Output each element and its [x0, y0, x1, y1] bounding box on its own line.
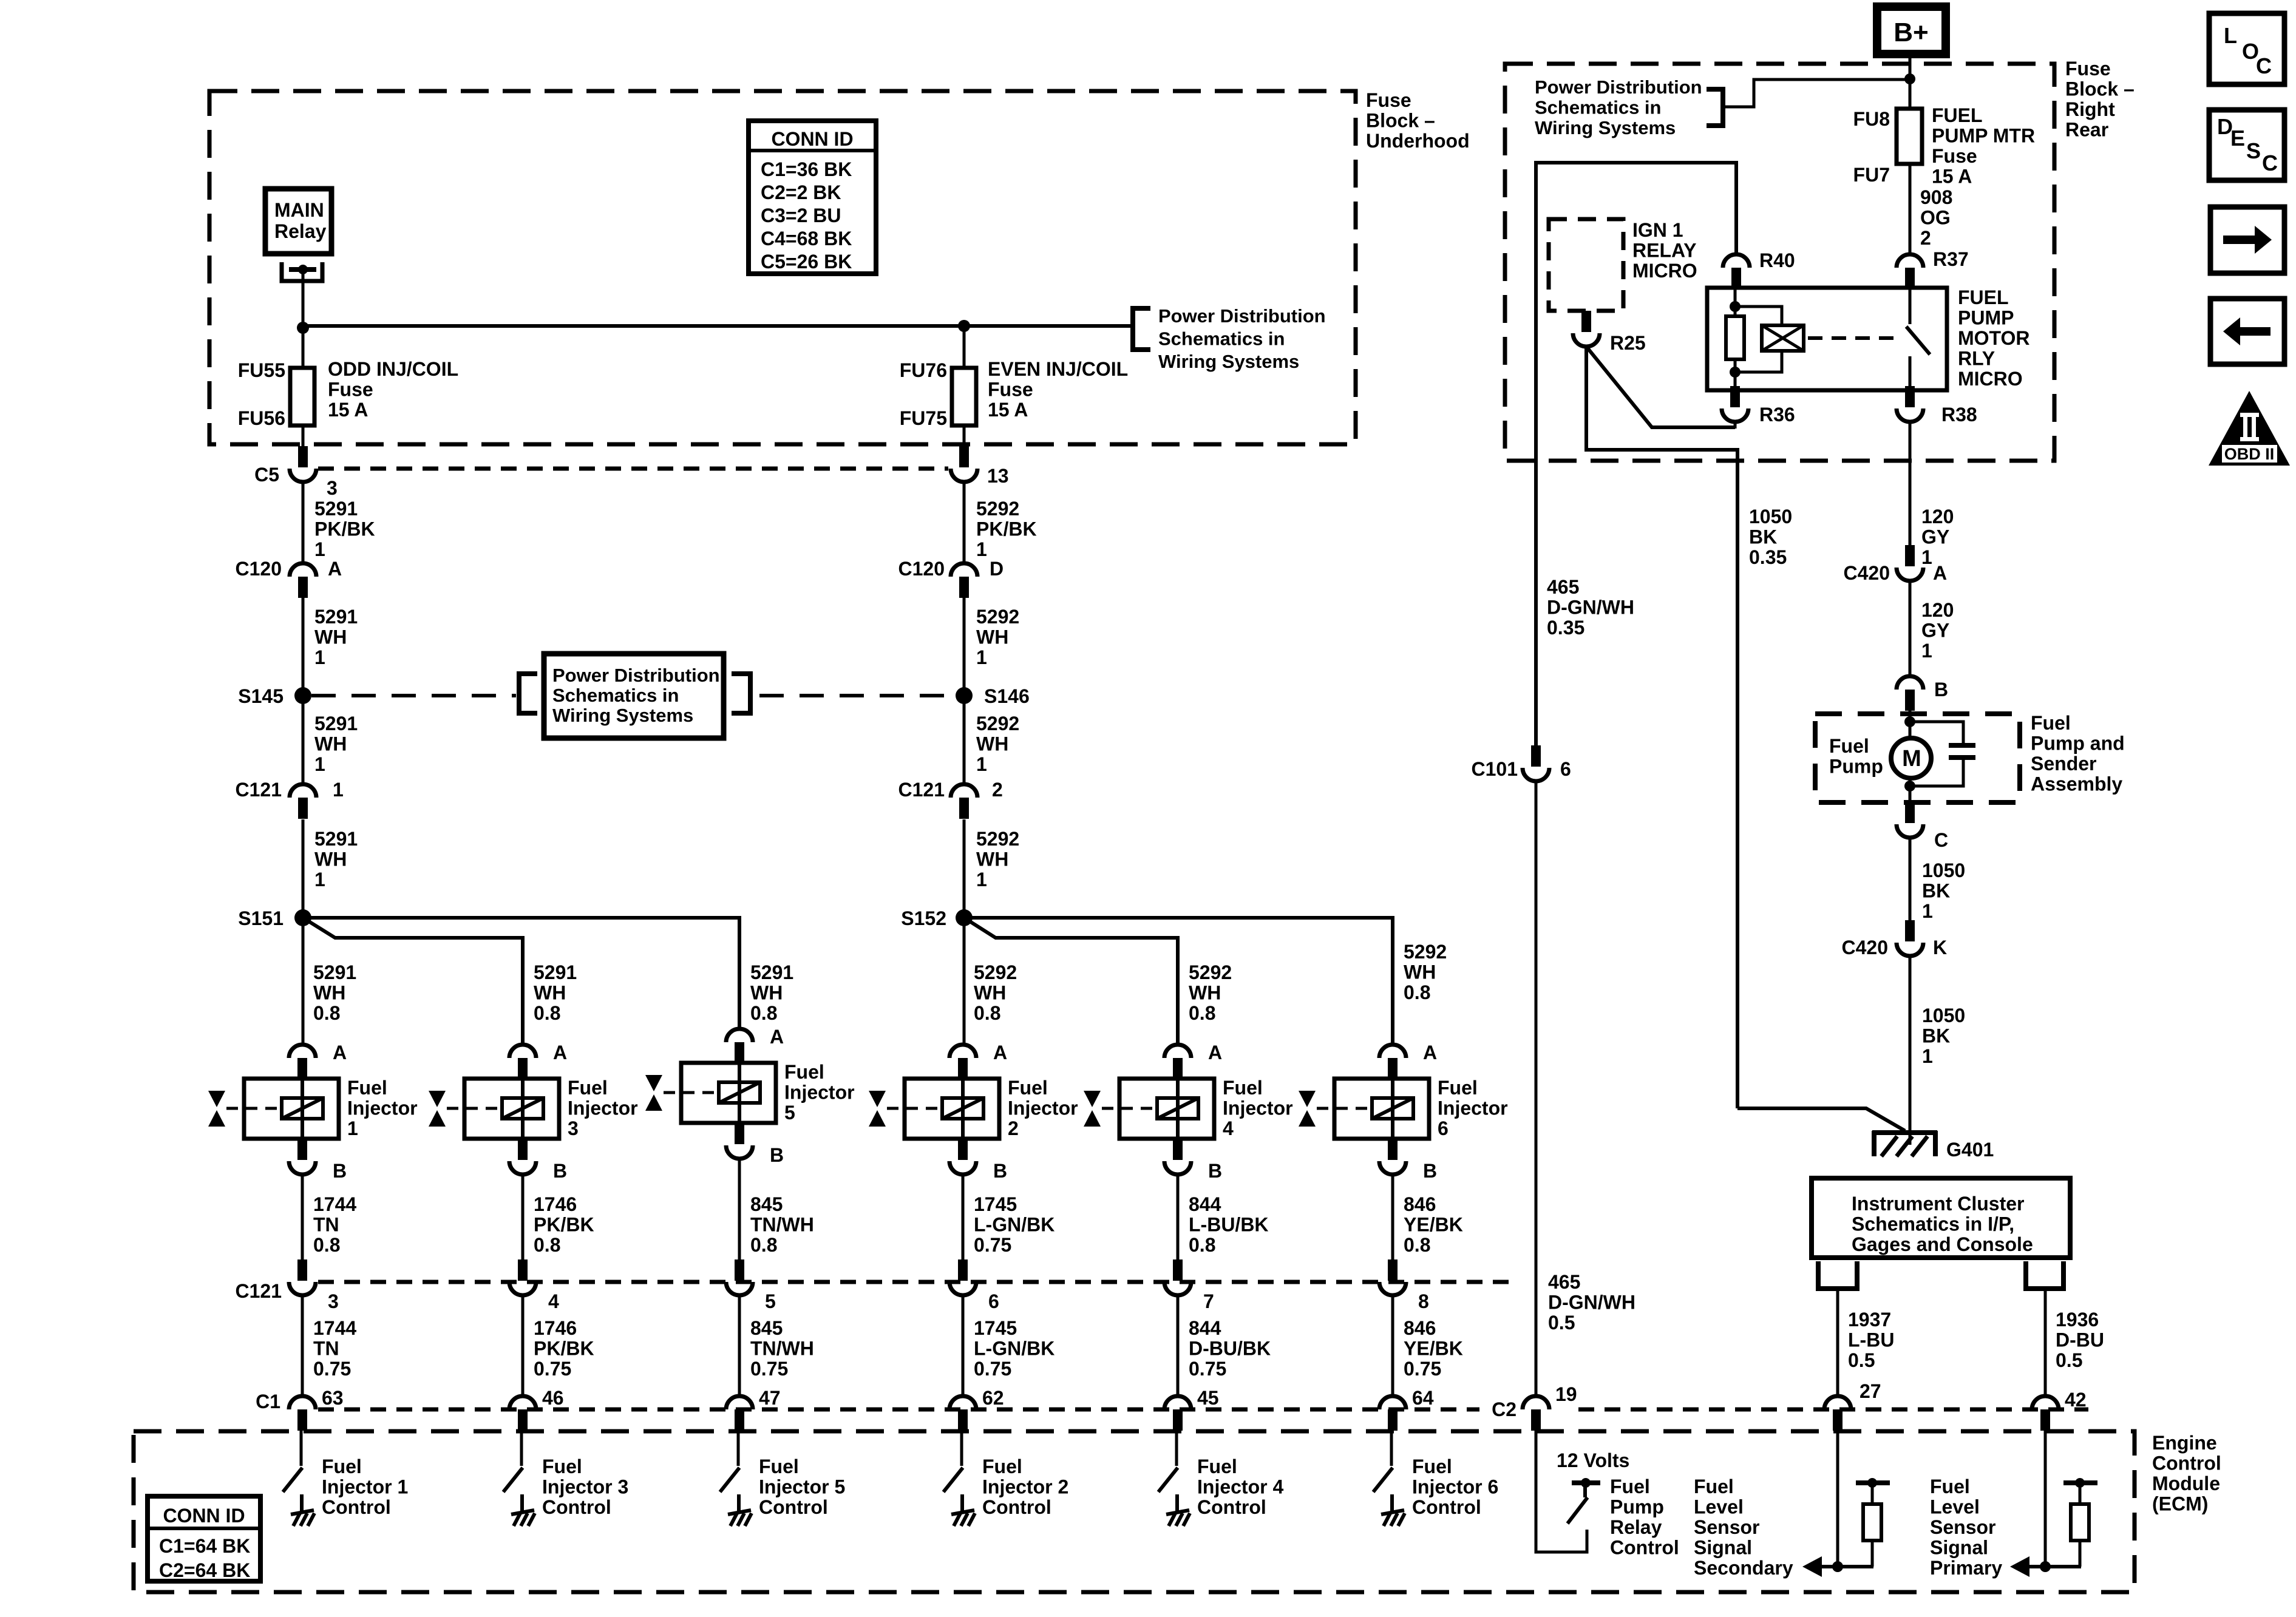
svg-text:844: 844	[1189, 1317, 1221, 1339]
svg-text:GY: GY	[1921, 526, 1949, 548]
svg-text:FU7: FU7	[1853, 164, 1890, 186]
svg-text:Rear: Rear	[2065, 119, 2108, 141]
connector B of fuel injector 1	[289, 1161, 316, 1175]
svg-text:B: B	[1423, 1160, 1437, 1182]
svg-text:Level: Level	[1694, 1496, 1744, 1518]
connector R25	[1573, 311, 1600, 347]
svg-text:MICRO: MICRO	[1632, 260, 1697, 282]
svg-text:Fuel: Fuel	[982, 1456, 1022, 1477]
svg-text:Fuel: Fuel	[1438, 1077, 1478, 1099]
svg-text:45: 45	[1197, 1387, 1219, 1409]
svg-text:Fuel: Fuel	[1008, 1077, 1048, 1099]
connector C121 pin 5	[726, 1259, 753, 1295]
power distribution reference box	[544, 654, 724, 738]
svg-text:D-BU: D-BU	[2056, 1329, 2104, 1351]
connector C5 pin 3	[290, 446, 316, 482]
wire C120-A to S145	[302, 598, 305, 696]
svg-text:5292: 5292	[974, 961, 1017, 983]
svg-text:L-GN/BK: L-GN/BK	[974, 1214, 1055, 1236]
relay actuation dashed link	[1808, 336, 1900, 340]
OBD II icon	[2209, 391, 2290, 466]
svg-text:Injector 1: Injector 1	[322, 1476, 408, 1498]
svg-text:15 A: 15 A	[1932, 166, 1972, 188]
svg-text:Level: Level	[1930, 1496, 1980, 1518]
engine control module dashed box	[134, 1431, 2135, 1592]
svg-text:M: M	[1902, 746, 1921, 771]
svg-text:0.35: 0.35	[1749, 546, 1787, 568]
svg-text:Fuse: Fuse	[328, 379, 373, 401]
connector C1 pin 47	[726, 1396, 753, 1431]
svg-text:C420: C420	[1842, 937, 1889, 958]
svg-text:Fuel: Fuel	[347, 1077, 387, 1099]
svg-text:FUEL: FUEL	[1958, 286, 2009, 308]
svg-text:A: A	[770, 1026, 784, 1048]
svg-text:5291: 5291	[314, 498, 358, 520]
wire MAIN relay to bus junction	[302, 272, 305, 328]
svg-text:Control: Control	[1610, 1537, 1679, 1559]
ECM driver switch (injector 5)	[720, 1468, 739, 1492]
ECM driver switch (injector 2)	[943, 1468, 963, 1492]
svg-text:Injector: Injector	[1223, 1097, 1293, 1119]
ECM fuel level secondary node	[1832, 1561, 1843, 1572]
dotted connector line C1/C2 row (right)	[1578, 1408, 2088, 1412]
svg-text:1744: 1744	[313, 1193, 356, 1215]
connector C420 pin K	[1897, 920, 1923, 956]
wire pin 19 into ECM	[1536, 1431, 1587, 1552]
svg-text:C1: C1	[256, 1391, 280, 1412]
dashed reference line to S146	[759, 694, 957, 697]
svg-text:Fuse: Fuse	[2065, 58, 2111, 80]
svg-text:62: 62	[982, 1387, 1004, 1409]
wire FU7 to R37	[1909, 164, 1912, 254]
svg-text:Injector: Injector	[1008, 1097, 1078, 1119]
svg-text:C: C	[1934, 829, 1948, 851]
injector 4 dashed actuator link	[1102, 1107, 1156, 1110]
svg-text:2: 2	[992, 779, 1003, 801]
connector C120 pin D	[951, 563, 977, 598]
svg-text:Fuel: Fuel	[1412, 1456, 1452, 1477]
connector C1 pin 46	[509, 1396, 536, 1431]
ECM driver switch (injector 1)	[283, 1468, 302, 1492]
svg-text:BK: BK	[1922, 880, 1950, 902]
svg-text:6: 6	[988, 1290, 999, 1312]
relay switch blade	[1906, 327, 1930, 354]
injector 6 dashed actuator link	[1317, 1107, 1371, 1110]
svg-text:2: 2	[1920, 227, 1931, 249]
svg-text:3: 3	[328, 1290, 339, 1312]
wire pin 42 into ECM	[2044, 1431, 2047, 1564]
injector 2 nozzle valve symbol	[869, 1091, 886, 1127]
ground feed from relay run	[1737, 1108, 1905, 1131]
svg-text:Power Distribution: Power Distribution	[1535, 76, 1702, 98]
ECM internal ground (injector 2)	[951, 1510, 975, 1526]
svg-text:Injector: Injector	[568, 1097, 638, 1119]
svg-text:5291: 5291	[314, 713, 358, 734]
horizontal bus wire	[303, 324, 1132, 328]
svg-text:Underhood: Underhood	[1366, 130, 1470, 152]
injector 1 nozzle valve symbol	[208, 1091, 225, 1127]
svg-text:Fuel: Fuel	[1930, 1476, 1970, 1497]
wire C120-D to S146	[963, 598, 966, 696]
svg-text:Power Distribution: Power Distribution	[1158, 305, 1326, 327]
svg-text:Schematics in: Schematics in	[552, 685, 679, 706]
svg-text:C5=26 BK: C5=26 BK	[761, 251, 852, 273]
svg-text:465: 465	[1548, 1271, 1580, 1293]
wire injector 4 to C121	[1177, 1175, 1180, 1261]
svg-text:Relay: Relay	[1610, 1516, 1662, 1538]
fuel pump motor M	[1891, 738, 1931, 778]
ECM switch contact (injector 5)	[737, 1494, 741, 1511]
svg-text:120: 120	[1921, 599, 1954, 621]
svg-text:0.8: 0.8	[750, 1002, 777, 1024]
svg-text:1: 1	[976, 538, 987, 560]
svg-text:C2=64 BK: C2=64 BK	[159, 1559, 250, 1581]
fuse FU76/FU75 EVEN INJ/COIL	[952, 368, 976, 425]
ground G401 symbol	[1872, 1131, 1937, 1156]
svg-text:(ECM): (ECM)	[2152, 1493, 2208, 1515]
dashed reference line S145	[311, 694, 516, 697]
connector B of fuel injector 5	[726, 1145, 753, 1159]
IGN 1 relay dashed box	[1549, 219, 1623, 311]
svg-text:C5: C5	[254, 464, 279, 486]
svg-text:0.75: 0.75	[974, 1234, 1011, 1256]
svg-text:1: 1	[347, 1117, 358, 1139]
connector A of fuel injector 6	[1379, 1045, 1406, 1079]
connector C121 pin 4	[509, 1259, 536, 1295]
svg-text:PK/BK: PK/BK	[314, 518, 375, 540]
wire B+ down	[1909, 54, 1912, 109]
svg-text:Instrument Cluster: Instrument Cluster	[1852, 1193, 2024, 1215]
wire C to C420-K	[1909, 838, 1912, 921]
svg-text:Fuel: Fuel	[1610, 1476, 1650, 1497]
svg-text:Control: Control	[1412, 1496, 1481, 1518]
connector B of fuel injector 4	[1164, 1161, 1191, 1175]
svg-text:0.75: 0.75	[313, 1358, 351, 1380]
forward arrow icon	[2210, 207, 2284, 273]
svg-text:Fuel: Fuel	[1829, 735, 1869, 757]
connector R37	[1897, 254, 1923, 289]
right bracket (power distribution right)	[1707, 89, 1723, 126]
svg-text:0.8: 0.8	[750, 1234, 777, 1256]
instrument cluster terminal right	[2026, 1261, 2063, 1289]
svg-text:WH: WH	[313, 982, 345, 1004]
svg-text:Control: Control	[982, 1496, 1051, 1518]
wire R38 to C420-A	[1909, 422, 1912, 545]
fuel injector 6 solenoid box	[1334, 1079, 1429, 1139]
svg-text:13: 13	[987, 465, 1009, 487]
svg-text:WH: WH	[314, 626, 347, 648]
svg-text:Schematics in I/P,: Schematics in I/P,	[1852, 1213, 2014, 1235]
svg-text:D-BU/BK: D-BU/BK	[1189, 1338, 1271, 1360]
svg-text:0.8: 0.8	[534, 1002, 560, 1024]
svg-text:A: A	[1208, 1042, 1222, 1063]
svg-text:D-GN/WH: D-GN/WH	[1548, 1292, 1635, 1314]
wire S152 to injector 6 branch	[964, 918, 1393, 1043]
wire S152 to injector 4 branch	[964, 918, 1178, 1043]
svg-text:46: 46	[542, 1387, 564, 1409]
connector C121 pin 7	[1164, 1259, 1191, 1295]
connector C fuel pump	[1897, 802, 1923, 838]
svg-text:6: 6	[1560, 758, 1571, 780]
svg-text:L-BU/BK: L-BU/BK	[1189, 1214, 1269, 1236]
svg-text:Injector: Injector	[1438, 1097, 1508, 1119]
connector C121 pin 8	[1379, 1259, 1406, 1295]
svg-text:1: 1	[314, 646, 325, 668]
dotted connector line C1/C2 row (left)	[318, 1408, 1479, 1412]
svg-text:CONN ID: CONN ID	[771, 128, 853, 150]
svg-text:5291: 5291	[314, 828, 358, 850]
relay coil top junction	[1730, 301, 1741, 312]
svg-text:FU56: FU56	[238, 407, 285, 429]
svg-text:1937: 1937	[1848, 1309, 1891, 1331]
splice S152	[956, 909, 973, 926]
svg-text:G401: G401	[1946, 1139, 1994, 1161]
svg-text:S145: S145	[238, 685, 284, 707]
injector 3 lower pin bar	[518, 1139, 528, 1160]
svg-text:TN: TN	[313, 1338, 339, 1360]
svg-text:TN/WH: TN/WH	[750, 1214, 814, 1236]
svg-text:12 Volts: 12 Volts	[1557, 1449, 1629, 1471]
connector B of fuel injector 2	[949, 1161, 976, 1175]
wire pump motor to C	[1909, 778, 1912, 802]
svg-text:Fuse: Fuse	[1366, 89, 1411, 111]
svg-text:5292: 5292	[1189, 961, 1232, 983]
connector C121 pin 2	[951, 784, 977, 819]
relay suppression module (box with X)	[1762, 325, 1804, 351]
svg-text:Fuse: Fuse	[1932, 145, 1977, 167]
svg-text:TN: TN	[313, 1214, 339, 1236]
ECM fuel level primary node	[2040, 1561, 2051, 1572]
svg-text:15 A: 15 A	[328, 399, 368, 421]
svg-text:1: 1	[976, 869, 987, 890]
svg-text:1: 1	[314, 753, 325, 775]
svg-text:0.8: 0.8	[1404, 1234, 1430, 1256]
svg-text:Assembly: Assembly	[2031, 773, 2122, 795]
svg-text:Injector: Injector	[784, 1082, 855, 1103]
ECM fuel level secondary resistor	[1856, 1478, 1890, 1567]
fuel pump motor relay box	[1707, 288, 1947, 390]
connector C1 pin 45	[1164, 1396, 1191, 1431]
svg-text:Injector: Injector	[347, 1097, 418, 1119]
svg-text:FU55: FU55	[238, 359, 285, 381]
wire into ECM (injector 1)	[300, 1431, 303, 1466]
svg-text:R36: R36	[1759, 404, 1795, 425]
svg-text:S146: S146	[984, 685, 1030, 707]
svg-text:5292: 5292	[976, 498, 1019, 520]
svg-text:1745: 1745	[974, 1193, 1017, 1215]
right bracket of power distribution box	[732, 674, 750, 713]
svg-text:Schematics in: Schematics in	[1158, 328, 1285, 350]
svg-text:BK: BK	[1922, 1025, 1950, 1047]
injector 4 lower pin bar	[1173, 1139, 1183, 1160]
svg-text:42: 42	[2065, 1389, 2087, 1411]
svg-text:64: 64	[1412, 1387, 1434, 1409]
capacitor branch top	[1910, 722, 1963, 743]
svg-text:C120: C120	[898, 558, 945, 580]
wire S151 to injector 1	[302, 918, 305, 1043]
wire bus to FU55	[302, 326, 305, 368]
svg-text:B: B	[333, 1160, 347, 1182]
wire injector 5 to C121	[738, 1159, 741, 1261]
injector 1 lower pin bar	[297, 1139, 307, 1160]
connector C121 pin 1	[290, 784, 316, 819]
MAIN relay output terminal	[282, 262, 322, 281]
svg-text:FU75: FU75	[900, 407, 947, 429]
wire S146 to C121-2	[963, 696, 966, 783]
svg-text:6: 6	[1438, 1117, 1449, 1139]
ECM driver switch (injector 3)	[503, 1468, 523, 1492]
connector C1 pin 64	[1379, 1396, 1406, 1431]
wire C121 to C1/C2 (injector 4)	[1177, 1295, 1180, 1396]
svg-text:Sensor: Sensor	[1694, 1516, 1759, 1538]
wire C121 to C1/C2 (injector 1)	[301, 1295, 304, 1396]
svg-text:Control: Control	[322, 1496, 391, 1518]
ECM fuel level primary arrow	[2010, 1556, 2081, 1577]
injector 6 nozzle valve symbol	[1299, 1091, 1316, 1127]
injector 4 internal wire	[1176, 1080, 1180, 1137]
connector C121 pin 3	[289, 1259, 316, 1295]
svg-text:0.8: 0.8	[313, 1234, 340, 1256]
relay coil bottom wire	[1734, 359, 1737, 390]
injector 1 internal wire	[301, 1080, 304, 1137]
svg-text:0.75: 0.75	[750, 1358, 788, 1380]
svg-text:C1=36 BK: C1=36 BK	[761, 158, 852, 180]
svg-text:WH: WH	[974, 982, 1006, 1004]
relay coil bottom junction	[1730, 367, 1741, 378]
svg-text:Sensor: Sensor	[1930, 1516, 1995, 1538]
connector R40	[1723, 254, 1750, 289]
wire terminal left down	[1836, 1289, 1839, 1396]
svg-text:S151: S151	[238, 907, 284, 929]
ECM internal ground (injector 3)	[511, 1510, 535, 1526]
connector A of fuel injector 4	[1164, 1045, 1191, 1079]
connector C2 pin 19	[1523, 1396, 1549, 1431]
svg-text:0.8: 0.8	[974, 1002, 1000, 1024]
svg-text:1: 1	[1922, 900, 1933, 922]
fuel pump and sender assembly dashed box	[1815, 714, 2020, 802]
injector 3 dashed actuator link	[447, 1107, 501, 1110]
wire C420-A to pump B	[1909, 581, 1912, 675]
dotted connector line C5 row	[318, 467, 948, 471]
wire C121 to C1/C2 (injector 2)	[962, 1295, 965, 1396]
connector A of fuel injector 3	[509, 1045, 536, 1079]
svg-text:Secondary: Secondary	[1694, 1557, 1793, 1579]
injector 3 internal wire	[521, 1080, 525, 1137]
fuel injector 3 solenoid box	[464, 1079, 559, 1139]
svg-text:R38: R38	[1941, 404, 1977, 425]
fuel injector 5 solenoid box	[681, 1063, 776, 1123]
capacitor branch bottom	[1910, 760, 1963, 786]
svg-text:1: 1	[333, 779, 344, 801]
wire R25 to R36	[1586, 347, 1735, 427]
svg-text:Block –: Block –	[1366, 110, 1435, 132]
svg-text:PK/BK: PK/BK	[534, 1338, 594, 1360]
svg-text:S: S	[2246, 138, 2261, 163]
svg-text:0.5: 0.5	[2056, 1349, 2082, 1371]
svg-text:1050: 1050	[1749, 506, 1792, 527]
svg-text:Pump and: Pump and	[2031, 733, 2125, 754]
svg-text:0.8: 0.8	[1404, 981, 1430, 1003]
svg-text:WH: WH	[976, 626, 1008, 648]
12V node bar	[1572, 1480, 1600, 1485]
connector A of fuel injector 1	[289, 1045, 316, 1079]
connector A of fuel injector 5	[726, 1029, 753, 1063]
wire injector 6 to C121	[1391, 1175, 1394, 1261]
connector R36	[1722, 386, 1748, 422]
svg-text:5: 5	[765, 1290, 776, 1312]
svg-text:Injector 4: Injector 4	[1197, 1476, 1283, 1498]
svg-text:B: B	[993, 1160, 1007, 1182]
instrument cluster terminal left	[1818, 1261, 1857, 1289]
svg-text:Control: Control	[542, 1496, 611, 1518]
wire bus to FU76	[963, 326, 966, 368]
svg-text:0.75: 0.75	[974, 1358, 1011, 1380]
svg-text:C121: C121	[236, 779, 282, 801]
ECM internal ground (injector 5)	[728, 1510, 752, 1526]
svg-text:Fuel: Fuel	[322, 1456, 362, 1477]
svg-text:Wiring Systems: Wiring Systems	[1158, 351, 1299, 372]
ECM fuel level secondary arrow	[1802, 1556, 1873, 1577]
svg-text:C121: C121	[898, 779, 945, 801]
svg-text:3: 3	[568, 1117, 579, 1139]
svg-text:Signal: Signal	[1930, 1537, 1988, 1559]
svg-text:B: B	[1208, 1160, 1222, 1182]
svg-text:OBD II: OBD II	[2224, 445, 2275, 463]
svg-text:5291: 5291	[313, 961, 356, 983]
wire terminal right down	[2044, 1289, 2047, 1396]
splice S151	[294, 909, 311, 926]
connector C2 pin 42	[2032, 1396, 2059, 1431]
svg-text:1: 1	[1922, 1045, 1933, 1067]
svg-text:1: 1	[1921, 546, 1932, 568]
svg-text:0.5: 0.5	[1848, 1349, 1875, 1371]
12V node dot	[1581, 1478, 1591, 1488]
relay switch output stub	[1909, 356, 1912, 390]
connector A of fuel injector 2	[949, 1045, 976, 1079]
svg-text:5292: 5292	[976, 828, 1019, 850]
fuel pump relay control switch blade	[1567, 1497, 1588, 1524]
fuel injector 4 solenoid box	[1119, 1079, 1214, 1139]
svg-text:Control: Control	[759, 1496, 828, 1518]
injector 1 dashed actuator link	[226, 1107, 280, 1110]
wire S152 to injector 2	[963, 918, 966, 1043]
svg-text:RELAY: RELAY	[1632, 240, 1697, 262]
relay switch input stub	[1909, 289, 1912, 324]
svg-text:7: 7	[1203, 1290, 1214, 1312]
ECM switch contact (injector 2)	[960, 1494, 964, 1511]
fuel injector 1 solenoid box	[244, 1079, 339, 1139]
wire junction to power distribution bracket	[1723, 80, 1908, 107]
svg-text:A: A	[333, 1042, 347, 1063]
svg-text:WH: WH	[314, 733, 347, 755]
injector 5 dashed actuator link	[664, 1091, 718, 1094]
svg-text:C: C	[2256, 53, 2272, 78]
svg-text:CONN ID: CONN ID	[163, 1505, 245, 1527]
wire 13 to C120-D	[963, 482, 966, 564]
wire FU55 to C5	[302, 425, 305, 447]
ECM internal ground (injector 6)	[1381, 1510, 1405, 1526]
wire injector 1 to C121	[301, 1175, 304, 1261]
svg-text:0.75: 0.75	[534, 1358, 571, 1380]
svg-text:Fuel: Fuel	[784, 1061, 824, 1083]
svg-text:465: 465	[1547, 576, 1579, 598]
svg-text:FU76: FU76	[900, 359, 947, 381]
wire B into pump	[1909, 711, 1912, 737]
svg-text:PUMP: PUMP	[1958, 307, 2014, 329]
svg-text:1050: 1050	[1922, 859, 1965, 881]
svg-text:Module: Module	[2152, 1473, 2220, 1494]
svg-text:0.8: 0.8	[313, 1002, 340, 1024]
